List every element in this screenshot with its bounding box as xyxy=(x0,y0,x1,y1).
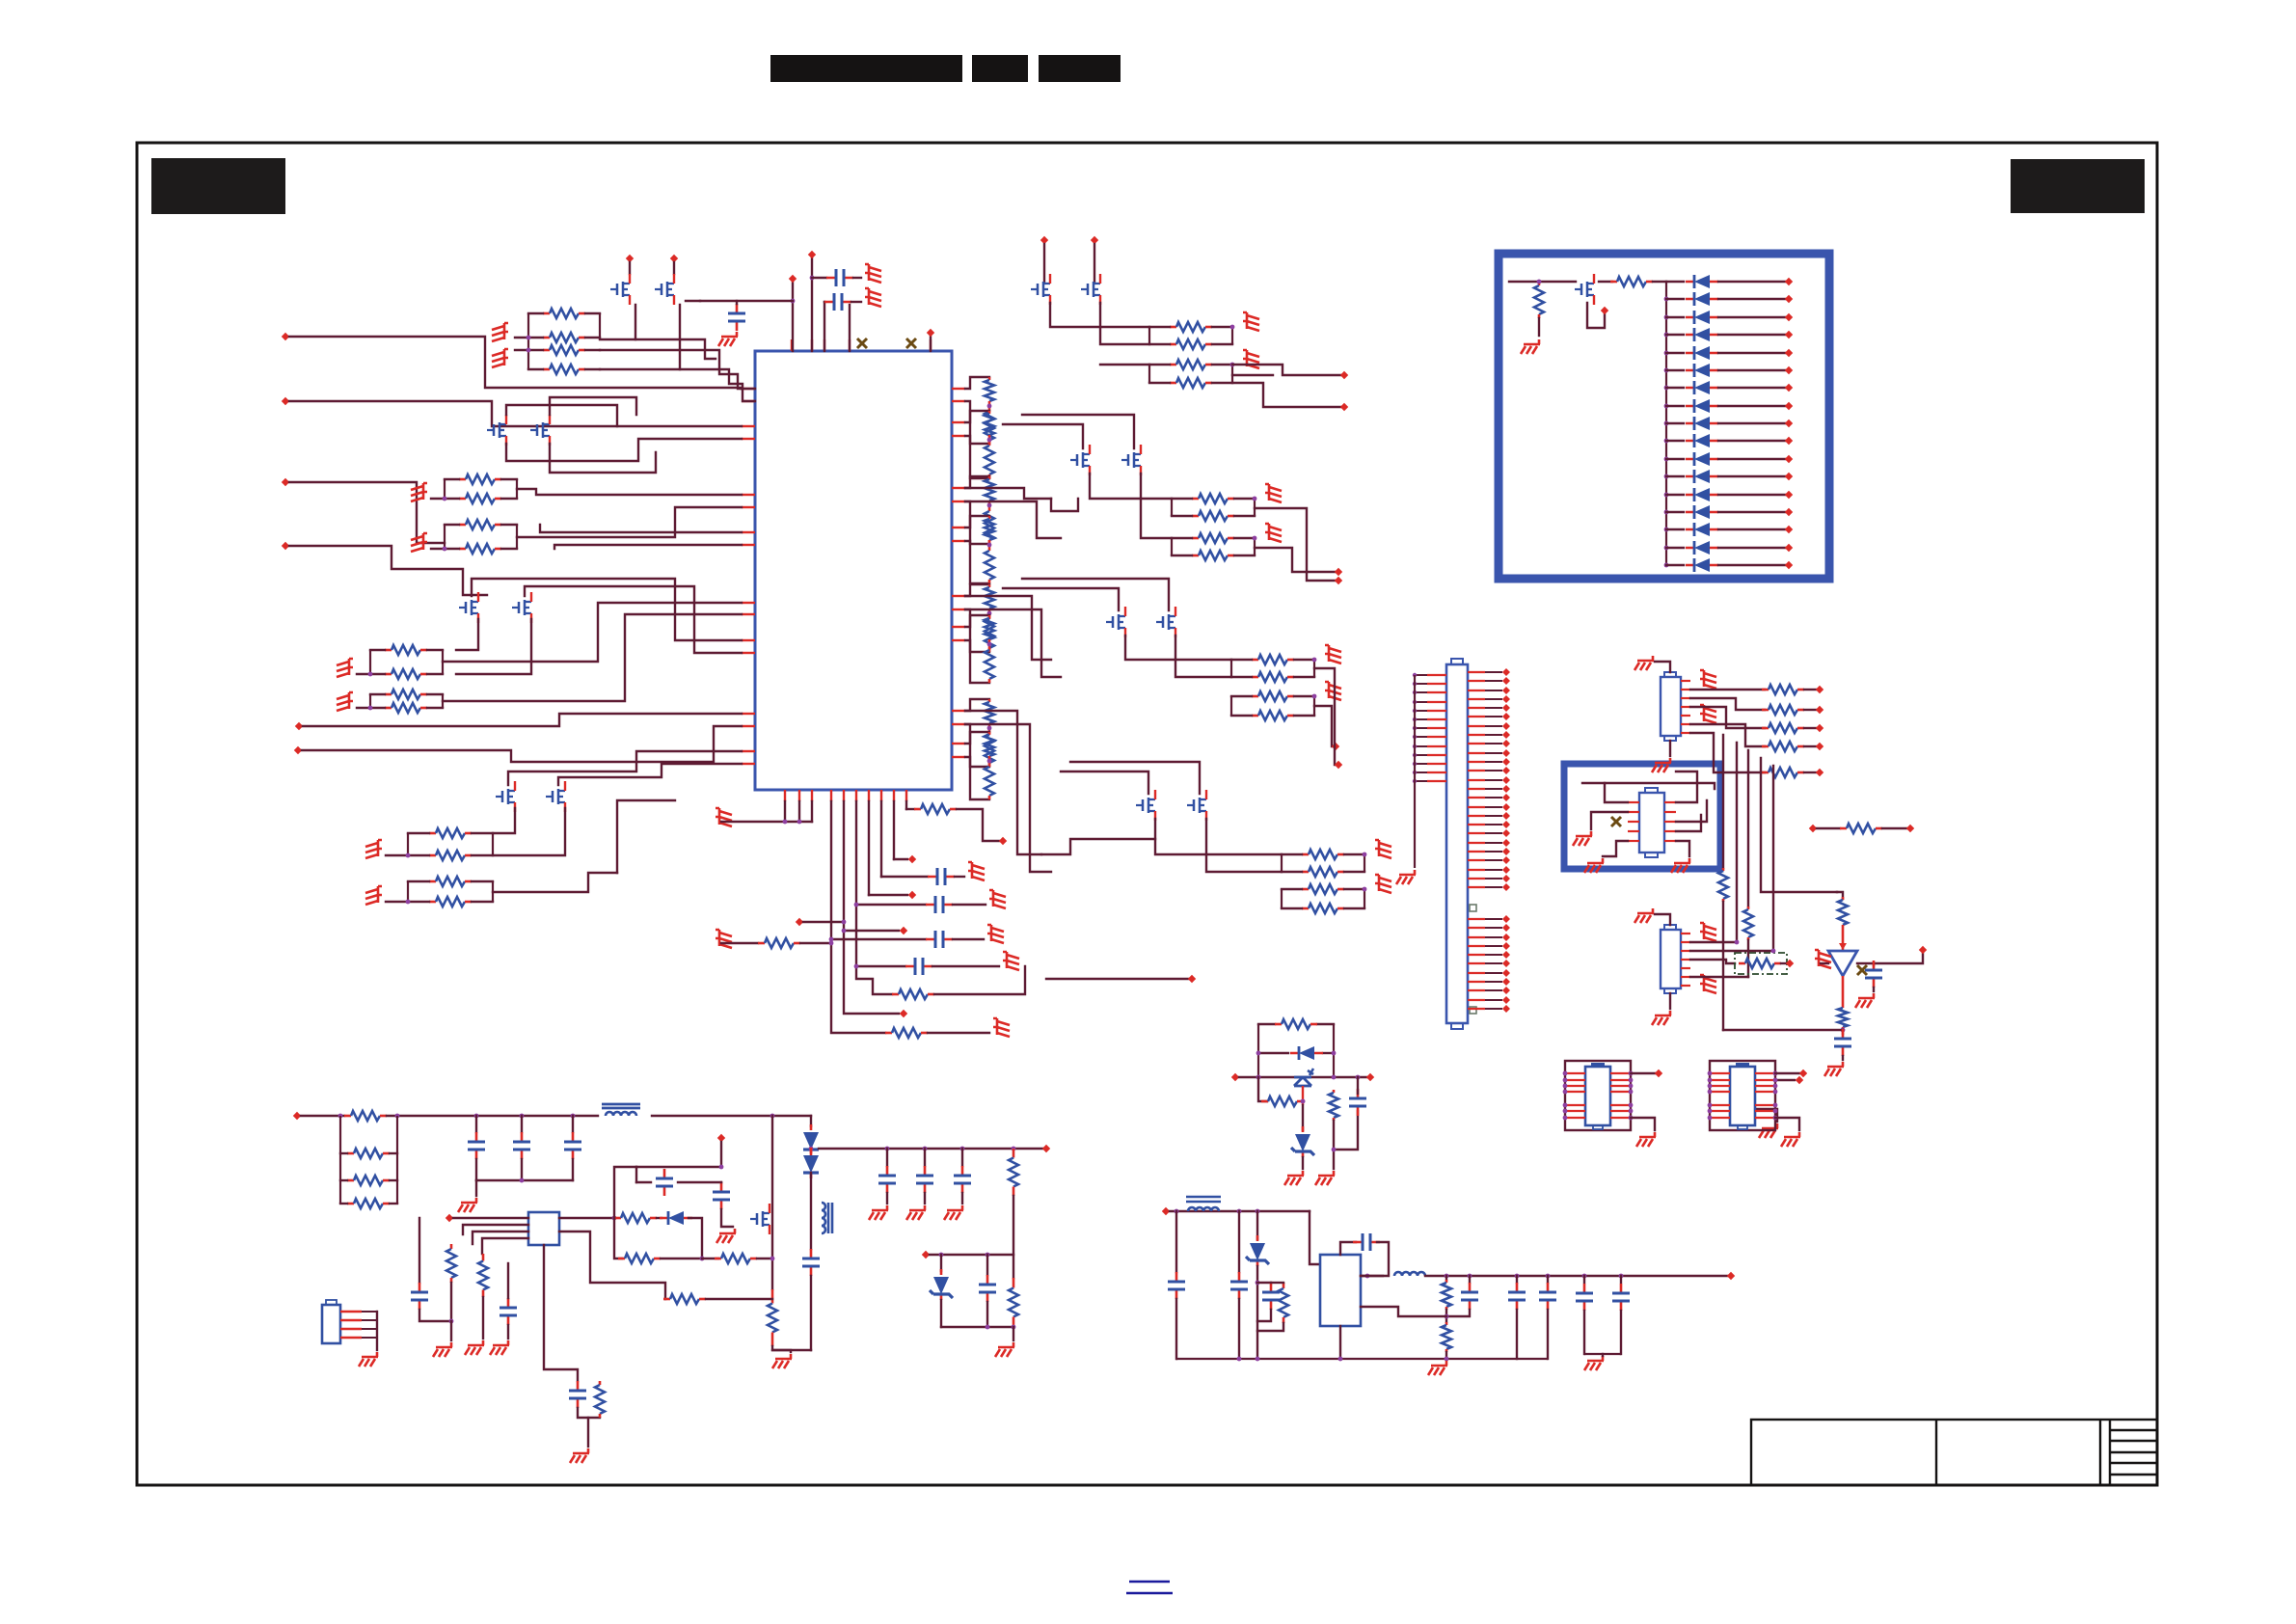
junction xyxy=(1582,1274,1587,1279)
ground xyxy=(772,1354,792,1368)
wire xyxy=(1690,941,1737,943)
transistor Q1 xyxy=(610,274,630,305)
wire xyxy=(376,1312,378,1350)
junction xyxy=(1301,1099,1306,1104)
junction xyxy=(987,438,992,443)
wire xyxy=(450,1321,452,1340)
junction xyxy=(809,1147,814,1151)
resistor R34 xyxy=(892,993,899,996)
resistor R11 xyxy=(385,693,392,696)
wire xyxy=(1094,244,1095,282)
connector J2 pins xyxy=(340,1311,362,1313)
resistor R26 xyxy=(1252,676,1258,679)
diode D15 xyxy=(1686,528,1718,531)
IC U1 top pins xyxy=(791,339,793,351)
ground xyxy=(989,890,1006,908)
wire xyxy=(965,711,1041,854)
wire xyxy=(1234,537,1255,539)
wire xyxy=(456,619,531,674)
junction xyxy=(612,1216,617,1221)
resistor RL9 xyxy=(988,584,991,587)
IC U3 xyxy=(1661,930,1681,988)
node xyxy=(1785,491,1793,499)
wire xyxy=(635,339,716,359)
diode D3 xyxy=(1686,316,1718,319)
wire xyxy=(1842,976,1845,1005)
wire xyxy=(928,1032,989,1034)
junction xyxy=(987,611,992,616)
wire xyxy=(965,732,989,744)
title redaction bar 3 xyxy=(1039,55,1121,82)
resistor R46 xyxy=(1747,907,1750,909)
wire xyxy=(1669,741,1671,756)
connector J1 gap markers xyxy=(1470,905,1476,911)
wire xyxy=(824,302,825,351)
wire xyxy=(340,1152,347,1154)
diode D12 xyxy=(1686,475,1718,478)
resistor group loop xyxy=(370,694,443,708)
wire xyxy=(772,1346,811,1350)
wire xyxy=(387,1115,598,1117)
node xyxy=(1786,960,1794,967)
wire xyxy=(1172,537,1192,539)
wire xyxy=(1602,1354,1604,1356)
resistor group loop xyxy=(528,313,600,369)
wire xyxy=(1676,841,1689,856)
junction xyxy=(1365,1274,1370,1279)
junction xyxy=(987,543,992,548)
wire xyxy=(1676,771,1697,802)
junction xyxy=(520,1114,525,1119)
wire xyxy=(1666,422,1684,424)
wire xyxy=(798,801,800,822)
wire xyxy=(819,1148,1042,1150)
ground xyxy=(458,1198,477,1212)
junction xyxy=(1253,497,1257,501)
resistor R3 xyxy=(543,349,550,352)
wire xyxy=(1022,579,1169,610)
ground xyxy=(1325,645,1341,663)
wire xyxy=(1655,914,1670,925)
wire xyxy=(1257,1323,1283,1331)
wire net IN3 xyxy=(289,482,445,543)
transformer T1 xyxy=(602,1104,640,1108)
transistor Q14 xyxy=(1156,607,1175,637)
wire xyxy=(880,801,882,877)
ground xyxy=(365,886,382,905)
wire xyxy=(1282,853,1302,855)
wire xyxy=(472,854,493,856)
node xyxy=(900,1010,907,1017)
wire xyxy=(965,724,989,767)
wire xyxy=(1583,1311,1585,1354)
transistor Q13 xyxy=(1106,607,1125,637)
wire xyxy=(1445,1310,1447,1322)
node xyxy=(1785,278,1793,285)
junction xyxy=(1664,368,1669,373)
ground xyxy=(1824,1062,1844,1076)
wire xyxy=(940,1300,942,1327)
junction xyxy=(939,1253,944,1258)
junction xyxy=(770,1257,775,1261)
wire xyxy=(1175,1299,1177,1359)
wire xyxy=(1258,1077,1267,1101)
wire xyxy=(1718,405,1785,407)
resistor R7 xyxy=(459,524,466,527)
wire xyxy=(965,596,1051,660)
no-connect X pin xyxy=(857,338,867,348)
wire xyxy=(1172,498,1192,500)
wire xyxy=(652,1115,811,1117)
wire xyxy=(635,1167,637,1182)
junction xyxy=(1735,940,1740,945)
wire xyxy=(558,764,742,785)
wire xyxy=(1334,1111,1358,1150)
wire xyxy=(1842,1030,1844,1034)
wire xyxy=(849,305,851,351)
wire xyxy=(1175,1211,1177,1272)
wire xyxy=(924,1149,926,1166)
IC U5 pins xyxy=(1628,801,1639,803)
ground xyxy=(1700,670,1716,689)
resistor R68 xyxy=(1283,1283,1285,1288)
node OUT6 xyxy=(1335,761,1342,769)
wire xyxy=(1206,819,1282,872)
resistor R25 xyxy=(1252,659,1258,662)
wire xyxy=(357,673,385,675)
ground xyxy=(1652,1011,1671,1025)
wire xyxy=(443,603,742,662)
diode D10 xyxy=(1686,440,1718,443)
wire xyxy=(800,942,831,944)
capacitor Cm1681 xyxy=(1620,1284,1623,1311)
node xyxy=(1785,402,1793,410)
wire xyxy=(1804,689,1816,690)
resistor RL3 xyxy=(988,411,991,414)
wire xyxy=(443,614,742,701)
title redaction bar 2 xyxy=(972,55,1028,82)
wire xyxy=(955,876,964,878)
ground xyxy=(865,288,881,307)
wire xyxy=(1303,1100,1304,1102)
node xyxy=(1785,437,1793,445)
wire xyxy=(1061,771,1148,794)
wire xyxy=(1718,422,1785,424)
IC U6 regulator xyxy=(528,1212,559,1245)
junction xyxy=(1664,386,1669,391)
wire xyxy=(1256,1266,1258,1359)
ground xyxy=(570,1448,589,1463)
transistor Q15 xyxy=(1136,790,1155,821)
wire xyxy=(1666,405,1684,407)
junction xyxy=(1338,1357,1343,1362)
resistor R43 xyxy=(1762,745,1769,748)
IC U1 left pins xyxy=(742,388,755,390)
wire xyxy=(1605,783,1715,802)
wire xyxy=(1212,382,1232,384)
wire xyxy=(1175,636,1231,677)
wire xyxy=(427,693,443,695)
wire xyxy=(1149,343,1170,345)
wire xyxy=(559,1217,614,1219)
resistor R60 xyxy=(1013,1278,1015,1288)
wire xyxy=(636,1166,721,1168)
wire xyxy=(1041,839,1155,854)
wire xyxy=(965,501,989,544)
wire xyxy=(340,1203,347,1204)
wire xyxy=(1090,474,1172,499)
capacitor Cin494 xyxy=(475,1132,478,1159)
ground xyxy=(993,1018,1010,1037)
wire xyxy=(772,1350,791,1352)
wire xyxy=(614,1218,622,1259)
junction xyxy=(960,1147,965,1151)
transistor Q9 xyxy=(1031,274,1050,305)
wire xyxy=(578,1408,600,1418)
wire xyxy=(1125,636,1231,660)
ground xyxy=(1671,858,1690,873)
junction xyxy=(443,497,447,501)
capacitor C20 xyxy=(1270,1283,1273,1310)
ground xyxy=(337,659,353,677)
junction xyxy=(700,1257,705,1261)
wire xyxy=(869,894,907,896)
ground xyxy=(1584,858,1604,873)
wire xyxy=(932,965,999,967)
wire xyxy=(1781,962,1786,964)
wire xyxy=(1238,1299,1240,1359)
wire xyxy=(812,277,826,279)
ground xyxy=(906,1205,926,1220)
resistor R1 xyxy=(543,312,550,315)
wire xyxy=(855,801,857,905)
wire xyxy=(1271,1282,1283,1284)
node xyxy=(999,837,1007,845)
ground xyxy=(492,323,508,341)
resistor R64 xyxy=(614,1217,621,1220)
capacitor C10 xyxy=(1357,1089,1360,1116)
wire xyxy=(600,305,635,339)
resistor R14 xyxy=(429,854,436,857)
ground xyxy=(433,1342,452,1357)
node xyxy=(1785,331,1793,338)
wire xyxy=(572,1159,574,1180)
wire xyxy=(680,369,755,401)
resistor R17 xyxy=(1170,326,1176,329)
wire xyxy=(431,498,459,500)
wire xyxy=(1509,281,1539,283)
junction xyxy=(1256,1051,1261,1056)
wire xyxy=(940,1255,942,1271)
wire xyxy=(941,1326,1013,1328)
wire xyxy=(930,337,932,351)
resistor group loop xyxy=(1282,854,1364,872)
wire xyxy=(661,1258,702,1259)
wire xyxy=(886,1193,888,1204)
wire net IN4 xyxy=(289,546,487,595)
wire xyxy=(1141,474,1172,538)
junction xyxy=(1619,1274,1624,1279)
wire xyxy=(824,301,825,303)
junction xyxy=(449,1319,454,1324)
wire xyxy=(445,478,459,480)
junction xyxy=(987,404,992,409)
wire xyxy=(1666,511,1684,513)
node IN4 xyxy=(282,542,289,550)
resistor R41 xyxy=(1762,709,1769,712)
wire xyxy=(953,904,986,906)
wire xyxy=(1255,548,1335,572)
node xyxy=(1785,526,1793,533)
wire xyxy=(585,349,600,351)
wire xyxy=(482,1238,528,1254)
IC U1 right pins xyxy=(952,388,965,390)
wire xyxy=(472,880,493,882)
wire xyxy=(1631,1118,1655,1130)
node xyxy=(1601,307,1608,314)
ground xyxy=(465,1340,484,1355)
node IN5 xyxy=(295,722,303,730)
wire xyxy=(736,301,738,304)
capacitor Co959 xyxy=(924,1166,927,1193)
wire xyxy=(1323,1052,1334,1054)
resistor R20 xyxy=(1170,382,1176,385)
wire xyxy=(301,1115,344,1117)
wire xyxy=(559,1232,665,1299)
capacitor C9 xyxy=(1842,1029,1845,1056)
wire xyxy=(515,349,543,351)
no-connect X xyxy=(1611,817,1621,826)
wire xyxy=(881,876,928,878)
resistor RL8 xyxy=(988,547,991,551)
resistor R8 xyxy=(459,548,466,551)
wire xyxy=(1100,303,1149,344)
junction xyxy=(1256,1357,1260,1362)
wire net IN5 xyxy=(303,714,742,726)
ground xyxy=(1265,484,1282,502)
capacitor C2 xyxy=(826,277,853,280)
wire xyxy=(600,305,680,369)
wire xyxy=(1690,976,1748,978)
wire xyxy=(614,1167,636,1218)
wire xyxy=(1653,281,1666,283)
resistor R28 xyxy=(1252,715,1258,717)
resistor R19 xyxy=(1170,364,1176,366)
resistor RL11 xyxy=(988,615,991,618)
ground xyxy=(718,332,738,346)
junction xyxy=(1546,1274,1551,1279)
node VOUT xyxy=(1042,1145,1050,1152)
junction xyxy=(1445,1274,1449,1279)
ground xyxy=(1700,975,1716,993)
diode D19 xyxy=(810,1124,813,1155)
wire xyxy=(1722,735,1724,868)
junction xyxy=(1664,333,1669,338)
resistor R29 xyxy=(1302,853,1309,856)
wire xyxy=(1344,888,1364,890)
wire xyxy=(482,1297,484,1339)
wire xyxy=(702,1258,718,1259)
node xyxy=(1785,508,1793,516)
wire xyxy=(1170,1210,1310,1212)
diode array box xyxy=(1499,254,1829,579)
wire xyxy=(1051,499,1078,511)
wire xyxy=(550,444,656,473)
capacitor C18 xyxy=(1175,1272,1178,1299)
ground xyxy=(968,862,985,880)
wire xyxy=(386,901,429,903)
wire xyxy=(507,1263,509,1298)
resistor stack loop xyxy=(340,1116,397,1204)
wire net IN6 xyxy=(302,726,742,762)
ground xyxy=(1243,350,1259,368)
ground xyxy=(411,533,427,552)
wire xyxy=(706,1298,772,1300)
wire xyxy=(1718,298,1785,300)
wire xyxy=(427,673,443,675)
junction xyxy=(1664,510,1669,515)
wire xyxy=(1718,494,1785,496)
wire xyxy=(585,337,600,338)
wire xyxy=(390,1179,397,1181)
junction xyxy=(719,1165,724,1170)
wire xyxy=(965,609,989,652)
junction xyxy=(1256,1075,1261,1080)
wire xyxy=(1718,528,1785,530)
wire xyxy=(886,1149,888,1166)
wire xyxy=(1302,1157,1304,1169)
wire xyxy=(1425,1275,1727,1277)
no-connect X pin xyxy=(906,338,916,348)
wire xyxy=(554,545,742,549)
node IN6 xyxy=(294,746,302,754)
wire xyxy=(965,516,989,528)
capacitor C11 xyxy=(810,1249,813,1276)
connector J1 right pins xyxy=(1468,671,1485,673)
resistor R10 xyxy=(385,673,392,676)
zener diode DZ1 xyxy=(1302,1126,1305,1157)
wire xyxy=(686,300,700,302)
wire xyxy=(1314,706,1332,746)
wire xyxy=(930,1254,1013,1256)
wire xyxy=(1666,352,1684,354)
resistor R32 xyxy=(1302,907,1309,910)
wire xyxy=(844,931,899,1014)
wire xyxy=(1718,387,1785,389)
capacitor Co920 xyxy=(886,1166,889,1193)
junction xyxy=(1256,1281,1260,1286)
diode D1 xyxy=(1686,281,1718,284)
wire xyxy=(1718,369,1785,371)
diode D21 xyxy=(660,1217,692,1220)
wire xyxy=(893,801,895,859)
wire xyxy=(965,488,1051,499)
ground xyxy=(1573,831,1592,846)
transistor Q2 xyxy=(655,274,674,305)
connector J1 left pins xyxy=(1427,674,1446,676)
schematic frame border xyxy=(137,143,2157,1485)
wire xyxy=(1747,750,1749,907)
diode D16 xyxy=(1686,547,1718,550)
wire xyxy=(1690,733,1765,772)
junction xyxy=(520,1178,525,1183)
wire xyxy=(721,821,812,823)
connector J1 xyxy=(1446,664,1468,1023)
capacitor C14 xyxy=(507,1298,510,1325)
wire xyxy=(1620,1276,1622,1283)
wire xyxy=(831,939,885,1033)
IC U2 pins xyxy=(1681,680,1690,682)
